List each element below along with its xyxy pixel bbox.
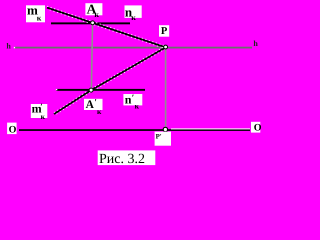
line m' (diagonal from lower-left to A') xyxy=(54,90,91,114)
label box n'_k xyxy=(123,92,142,110)
label box m_k xyxy=(26,2,45,22)
svg-text:к: к xyxy=(37,14,42,23)
label box O left xyxy=(7,123,17,136)
node A (circle) xyxy=(91,21,95,25)
white lead tick of line h xyxy=(14,47,15,48)
svg-text:к: к xyxy=(131,13,136,22)
label box A'_k xyxy=(84,97,103,116)
svg-text:O: O xyxy=(9,125,17,136)
white lead tick of line n' xyxy=(56,89,57,90)
vertical projection line A-A' xyxy=(91,23,92,90)
svg-text:Рис. 3.2: Рис. 3.2 xyxy=(99,152,145,167)
caption box Рис. 3.2 xyxy=(98,150,156,166)
ray A' to P xyxy=(91,47,166,90)
svg-text:n: n xyxy=(125,92,132,106)
label box m'_k xyxy=(31,102,48,122)
label box n_k xyxy=(125,5,142,22)
svg-text:′: ′ xyxy=(40,102,43,112)
line n' (bottom horizontal through A') xyxy=(56,89,145,91)
white dither fringe of ray A'P xyxy=(92,46,166,89)
label box O right xyxy=(251,122,262,134)
svg-text:к: к xyxy=(97,107,102,116)
svg-text:O: O xyxy=(254,123,261,134)
node P (circle) xyxy=(164,45,168,49)
line n (top horizontal) xyxy=(51,22,130,24)
svg-text:A: A xyxy=(86,99,95,111)
label box P xyxy=(159,25,169,37)
svg-text:P′: P′ xyxy=(156,134,162,141)
svg-text:P: P xyxy=(161,26,168,37)
white dither fringe of line m xyxy=(47,6,166,46)
vertical projection line P-P' xyxy=(165,47,167,129)
svg-text:к: к xyxy=(135,101,140,110)
white edge above right part of axis O-O xyxy=(171,128,250,129)
white dither fringe of line m' xyxy=(54,89,91,113)
axis O-O (bottom line) xyxy=(19,129,250,131)
svg-text:к: к xyxy=(41,112,46,121)
node A' (circle) xyxy=(89,88,93,92)
svg-text:h: h xyxy=(253,39,258,48)
node P' (circle) xyxy=(163,127,167,131)
line h (horizontal axis through P) xyxy=(14,47,252,49)
line m (diagonal through A to P) xyxy=(47,8,166,48)
label box A_k xyxy=(85,2,102,19)
svg-text:′: ′ xyxy=(94,97,97,107)
svg-text:h: h xyxy=(6,42,11,51)
svg-text:к: к xyxy=(94,10,99,19)
label box P' xyxy=(155,132,171,146)
